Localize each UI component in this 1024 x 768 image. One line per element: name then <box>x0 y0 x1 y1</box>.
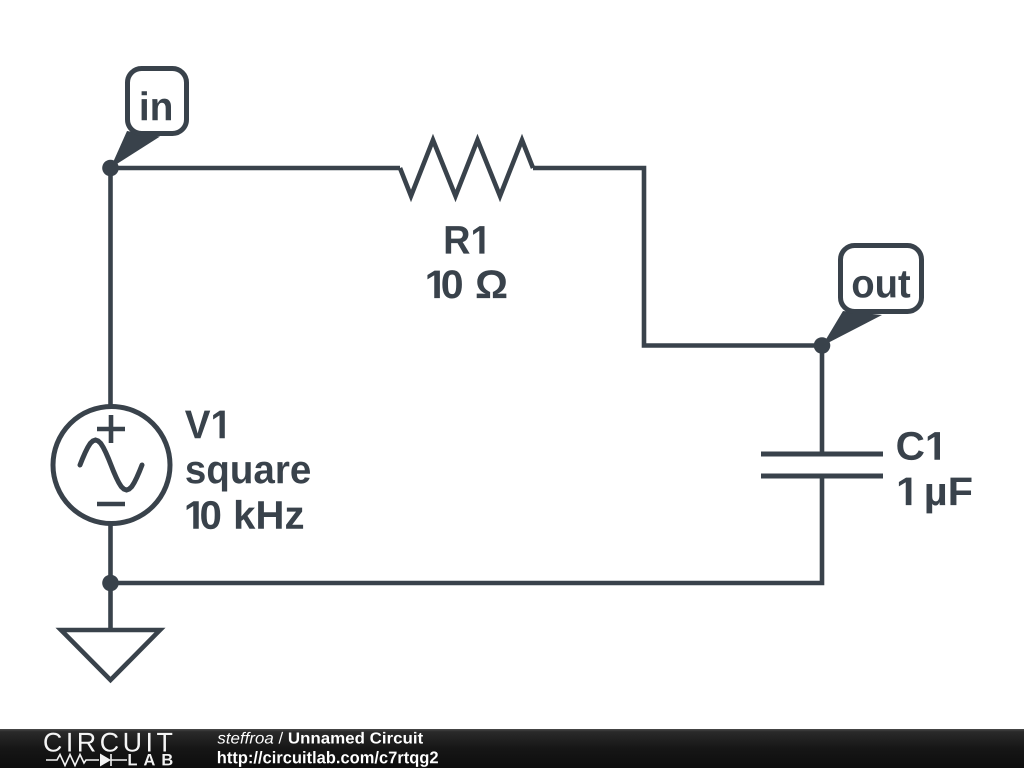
node flag out pointer tail <box>822 311 882 346</box>
footer logo resistor-diode art <box>46 754 127 766</box>
wire: capacitor C1 bottom plate down and left along bottom to ground node <box>111 476 823 583</box>
node out junction dot <box>814 337 831 354</box>
node in junction dot <box>102 160 119 177</box>
ground node junction dot <box>102 575 119 592</box>
value label 10 ohm <box>427 270 506 298</box>
label C1 <box>897 432 940 460</box>
value label 10 kHz <box>187 500 304 529</box>
wire: V1 bottom terminal to ground symbol <box>108 523 113 630</box>
wire: node in to resistor R1 left lead <box>111 166 401 171</box>
V1 plus sign <box>97 415 125 443</box>
footer logo LAB <box>128 754 172 765</box>
label R1 <box>446 226 485 254</box>
V1 minus sign <box>97 502 125 507</box>
ground symbol triangle <box>61 630 160 680</box>
capacitor C1 top plate <box>761 452 883 457</box>
wire: resistor R1 right lead to corner down to node out <box>533 168 822 346</box>
resistor R1 zigzag body <box>400 140 533 196</box>
footer url <box>218 751 438 767</box>
voltage source V1 circle body <box>53 407 170 524</box>
V1 sine wave symbol <box>80 440 142 490</box>
value label 1 uF <box>899 478 972 514</box>
value label square <box>186 462 310 492</box>
footer logo diode triangle <box>100 754 111 767</box>
node flag in pointer tail <box>111 131 161 168</box>
footer credit line <box>217 732 423 744</box>
label V1 <box>185 411 225 439</box>
node flag out text <box>853 271 910 297</box>
node flag out rounded box <box>841 246 922 312</box>
node flag in rounded box <box>128 69 187 134</box>
footer logo CIRCUIT wordmark <box>44 733 172 752</box>
wire: node out down to capacitor C1 top plate <box>820 346 825 455</box>
node flag in text <box>142 91 171 120</box>
footer bar <box>0 729 1024 768</box>
capacitor C1 bottom plate <box>761 474 883 479</box>
wire: node in down to voltage source V1 top terminal <box>108 168 113 408</box>
